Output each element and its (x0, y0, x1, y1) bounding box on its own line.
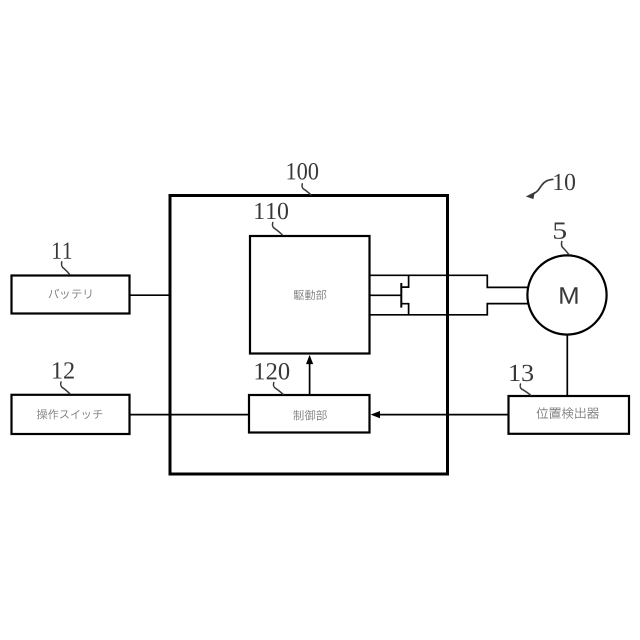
box 110 drive unit (250, 236, 370, 354)
arrow position detector to control unit (379, 414, 509, 416)
label 12 (53, 362, 74, 378)
leader squiggle 120 (273, 383, 283, 395)
pointer arrow for 10 (534, 179, 554, 194)
leader squiggle 5 (562, 242, 569, 255)
wire switch to control unit (130, 414, 250, 416)
wire top rail drive unit to motor (370, 275, 529, 287)
text drive unit (駆動部) (294, 290, 327, 300)
label 100 (287, 163, 318, 180)
box 13 position detector (509, 396, 630, 434)
label 10 (554, 174, 575, 191)
text M in motor (560, 287, 577, 304)
leader squiggle 11 (62, 262, 70, 274)
text battery (バッテリ) (49, 289, 92, 299)
text control unit (制御部) (293, 410, 326, 421)
label 5 (554, 223, 566, 239)
text operation switch (操作スイッチ) (37, 409, 102, 419)
text position detector (位置検出器) (537, 407, 599, 419)
label 11 (53, 243, 71, 259)
leader squiggle 100 (302, 184, 311, 195)
connector top stub (401, 275, 408, 287)
wire middle stub from drive unit (370, 294, 402, 296)
leader squiggle 13 (520, 384, 531, 395)
box 11 battery (12, 276, 130, 314)
box 12 operation switch (12, 395, 130, 434)
wire motor to position detector (566, 335, 568, 396)
leader squiggle 12 (61, 382, 70, 394)
label 110 (255, 203, 288, 220)
motor circle M (5) (527, 255, 606, 334)
label 13 (510, 365, 533, 382)
leader squiggle 110 (272, 223, 282, 235)
arrow control unit to drive unit (309, 363, 311, 396)
box 120 control unit (249, 395, 370, 433)
connector bar at drive output (400, 283, 402, 308)
outer box 100 (170, 196, 448, 475)
wire battery to outer box (130, 294, 171, 296)
wire bottom rail drive unit to motor (370, 304, 529, 315)
connector bottom stub (401, 304, 408, 315)
label 120 (255, 363, 289, 380)
